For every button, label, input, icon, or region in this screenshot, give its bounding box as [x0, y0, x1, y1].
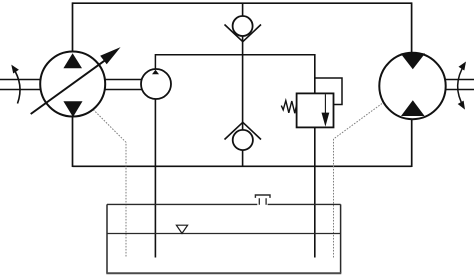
hydraulic motor M1: [379, 53, 445, 119]
wire: relief valve inlet: [314, 54, 316, 94]
wire: pump case drain (dotted): [93, 110, 126, 258]
relief valve RV1 pilot line loop: [315, 78, 342, 105]
wire: shaft coupling pump to charge pump: [104, 80, 142, 90]
wire: top bus A (pump to motor): [73, 2, 412, 4]
wire: motor bottom riser: [411, 117, 413, 167]
wire: pump bottom riser: [72, 115, 74, 167]
wire: motor shaft lines right: [445, 80, 474, 90]
breather / filler cap: [255, 195, 270, 205]
relief valve RV1: [297, 93, 334, 127]
wire: charge pump top stub: [154, 54, 156, 71]
charge pump P2: [141, 69, 171, 99]
pump shaft rotation arrow: [11, 65, 20, 104]
fluid level line: [107, 233, 341, 235]
wire: bottom bus B (pump to motor): [73, 165, 412, 167]
reservoir T1 (tank body): [106, 204, 341, 273]
wire: pump shaft lines left: [0, 80, 41, 90]
wire: check valve branch vertical: [242, 3, 244, 166]
wire: relief valve return to tank: [314, 127, 316, 258]
check valve CV1 (top): [225, 16, 262, 42]
variable displacement pump P1: [31, 47, 121, 117]
fluid level indicator triangle: [176, 225, 187, 233]
motor shaft rotation arrow (bidirectional): [458, 62, 466, 110]
wire: charge pump outlet header: [155, 54, 314, 56]
check valve CV2 (middle): [225, 122, 262, 150]
wire: pump top riser: [72, 2, 74, 53]
wire: motor case drain (dotted): [334, 104, 383, 258]
wire: motor top riser: [411, 2, 413, 54]
relief valve spring: [281, 101, 296, 114]
wire: charge pump suction line to tank: [154, 98, 156, 258]
